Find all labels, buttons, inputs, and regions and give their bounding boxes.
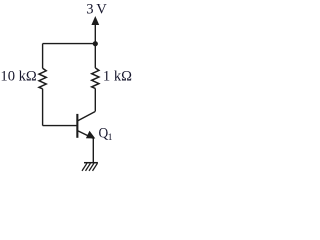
svg-text:1 kΩ: 1 kΩ <box>103 69 132 85</box>
resistor R 1k zigzag <box>92 68 99 89</box>
ground hatch lines <box>82 163 97 171</box>
svg-text:3: 3 <box>86 2 93 18</box>
wire: base lead <box>43 125 77 127</box>
wire: collector diagonal lead <box>78 112 95 121</box>
junction node dot <box>93 41 98 46</box>
resistor R 10k zigzag <box>39 68 46 89</box>
wire: top horizontal rail <box>43 43 96 45</box>
svg-text:V: V <box>96 2 107 18</box>
wire: emitter vertical to ground <box>92 138 94 163</box>
svg-text:1: 1 <box>108 132 113 143</box>
power arrow 3V <box>91 16 99 25</box>
transistor Q1 base bar <box>76 114 78 138</box>
wire: collector vertical <box>94 88 96 111</box>
wire: emitter diagonal lead <box>78 131 94 139</box>
wire: supply vertical <box>94 24 96 44</box>
wire: left branch lower <box>42 89 44 126</box>
wire: left branch upper <box>42 44 44 69</box>
transistor Q1 emitter arrowhead <box>86 131 95 139</box>
ground bar <box>84 162 98 164</box>
wire: right branch upper <box>94 44 96 68</box>
svg-text:10 kΩ: 10 kΩ <box>0 69 37 85</box>
